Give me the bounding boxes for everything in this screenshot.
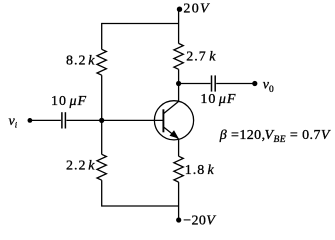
- wire collector stub (collector node to transistor): [178, 84, 180, 102]
- wire top rail: [102, 23, 179, 25]
- svg-text:β =120,VBE = 0.7V: β =120,VBE = 0.7V: [219, 128, 331, 145]
- resistor 1.8k: [174, 156, 183, 182]
- wire input left (vi dot to capacitor): [30, 119, 61, 121]
- wire output left (collector node to capacitor): [179, 83, 211, 85]
- wire right column bottom (1.8k to -20V dot): [178, 182, 180, 220]
- transistor Q1 NPN: [154, 101, 193, 140]
- svg-text:2.7k: 2.7k: [186, 50, 216, 65]
- resistor 2.7k: [174, 43, 183, 69]
- node +20V (supply dot): [177, 7, 182, 12]
- wire bottom rail: [102, 205, 179, 207]
- capacitor 10uF input: [62, 112, 66, 128]
- node -20V (supply dot): [176, 217, 181, 222]
- wire right column top (+20V to 2.7k): [178, 9, 180, 43]
- node vi (input terminal dot): [28, 118, 33, 123]
- svg-text:10μF: 10μF: [51, 94, 87, 109]
- wire right column (2.7k to collector node): [178, 69, 180, 83]
- wire left column upper (top rail to 8.2k): [101, 23, 103, 50]
- junction dot base node: [99, 118, 104, 123]
- wire left column mid (8.2k to base node): [101, 75, 103, 120]
- capacitor 10uF output: [212, 75, 216, 91]
- svg-text:v0: v0: [263, 78, 274, 96]
- node vo (output terminal dot): [252, 81, 257, 86]
- svg-text:20V: 20V: [183, 2, 210, 17]
- resistor 2.2k: [97, 154, 106, 180]
- svg-text:8.2k: 8.2k: [66, 54, 96, 69]
- wire base (base node to transistor): [102, 119, 164, 121]
- wire input right (capacitor to base node): [66, 119, 101, 121]
- svg-text:2.2k: 2.2k: [66, 159, 96, 174]
- wire emitter (transistor to 1.8k): [178, 139, 180, 156]
- svg-text:vi: vi: [9, 114, 18, 130]
- resistor 8.2k: [97, 49, 106, 75]
- wire left column bottom (2.2k to bottom rail): [101, 180, 103, 206]
- svg-text:10μF: 10μF: [200, 92, 236, 107]
- wire left column lower (base node to 2.2k): [101, 120, 103, 154]
- wire output right (capacitor to vo dot): [216, 83, 255, 85]
- junction dot collector node: [176, 81, 181, 86]
- svg-text:1.8k: 1.8k: [185, 163, 215, 178]
- svg-text:−20V: −20V: [183, 214, 216, 229]
